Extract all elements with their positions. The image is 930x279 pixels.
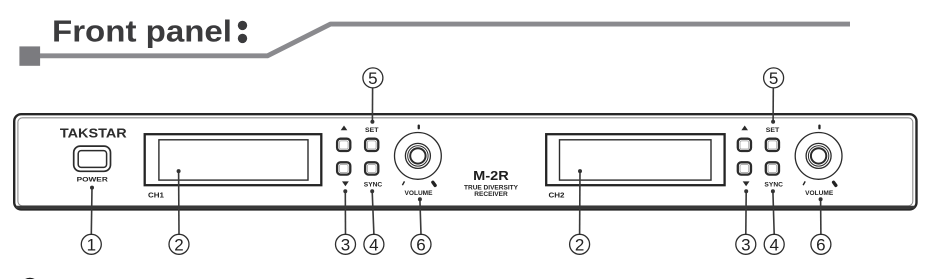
callout circle 4 [364,234,384,254]
volume top tick CH1 [418,125,420,130]
button down CH2 [738,162,751,174]
header decorative line [40,24,850,56]
CH2 label [549,193,565,200]
svg-text:Front panel: Front panel [52,15,232,49]
volume knob CH2 [795,133,842,180]
svg-text:SYNC: SYNC [764,181,783,188]
callout circle 6 right [811,234,831,254]
svg-text:VOLUME: VOLUME [805,190,834,197]
RECEIVER label [474,191,508,198]
receiver chassis outline [14,114,916,209]
svg-text:1: 1 [87,235,96,254]
svg-text:CH1: CH1 [148,193,164,200]
svg-text:2: 2 [575,235,584,254]
header square bullet [19,46,40,65]
SYNC label CH1 [364,181,383,188]
SYNC label CH2 [764,181,783,188]
volume max tick CH1 [433,182,435,185]
VOLUME label CH2 [805,190,834,197]
VOLUME label CH1 [405,190,434,197]
callout dot 6 [418,197,422,201]
volume top tick CH2 [818,125,820,130]
display CH2 outer frame [546,134,724,185]
svg-text:5: 5 [368,69,377,88]
callout circle 2 right [570,234,590,254]
callout circle 4 right [764,234,784,254]
svg-text:RECEIVER: RECEIVER [474,191,508,198]
power button outer ring [74,146,111,171]
title: Front panel [52,15,232,49]
button sync CH1 [365,162,378,174]
volume min tick CH1 [402,181,404,185]
callout dot 5 right [771,120,775,124]
up arrow label CH2 [741,126,748,131]
callout dot 6 right [819,197,823,201]
volume knob CH1 [395,133,442,180]
chassis bottom shadow [16,206,915,209]
svg-text:SET: SET [766,127,780,134]
button set CH1 [365,139,378,151]
SET label CH2 [766,127,780,134]
svg-text:CH2: CH2 [549,193,565,200]
svg-text:SYNC: SYNC [364,181,383,188]
callout dot 3 right [744,189,748,193]
svg-text:VOLUME: VOLUME [405,190,434,197]
callout circle 3 right [736,234,756,254]
button down CH1 [337,162,350,174]
callout dot 5 [370,120,374,124]
callout circle 3 [336,234,356,254]
down arrow label CH2 [743,181,750,186]
callout circle 5 [363,68,383,88]
volume max tick CH2 [834,182,836,185]
svg-text:POWER: POWER [77,177,108,184]
svg-text:3: 3 [341,235,350,254]
callout line 5 [371,88,373,122]
callout line 5 right [772,88,774,122]
svg-text:5: 5 [769,69,778,88]
callout line 1 [90,188,93,235]
down arrow label CH1 [342,181,349,186]
volume min tick CH2 [803,181,805,185]
svg-text:6: 6 [816,235,825,254]
callout circle 1 [81,234,101,254]
callout line 4 [372,191,374,234]
callout dot 3 [343,189,347,193]
callout dot 1 [90,186,94,190]
callout line 4 right [773,191,774,234]
svg-text:SET: SET [365,127,379,134]
callout line 2 [178,171,180,234]
svg-text:3: 3 [741,235,750,254]
callout circle 6 [411,234,431,254]
chassis inner bevel line [18,118,913,206]
display CH1 outer frame [145,134,322,185]
TRUE DIVERSITY label [464,185,519,192]
callout dot 2 [177,169,181,173]
callout dot 4 [370,189,374,193]
svg-text:4: 4 [769,235,778,254]
callout dot 4 right [771,189,775,193]
callout circle 5 right [764,68,784,88]
display CH2 screen [560,140,712,180]
callout dot 2 right [578,169,582,173]
svg-text:4: 4 [369,235,378,254]
power button inner face [78,151,106,168]
svg-text:M-2R: M-2R [473,168,509,183]
title colon [238,21,247,43]
display CH1 screen [159,140,308,180]
callout line 3 right [745,191,747,234]
up arrow label CH1 [341,126,348,131]
button up CH2 [738,139,751,151]
model name M-2R [473,168,509,183]
SET label CH1 [365,127,379,134]
TAKSTAR logo [60,127,127,141]
button set CH2 [766,139,779,151]
callout line 2 right [579,171,581,234]
button up CH1 [337,139,350,151]
callout line 6 right [820,199,822,234]
button sync CH2 [766,162,779,174]
POWER label [77,177,108,184]
svg-text:6: 6 [416,235,425,254]
callout line 3 [344,191,346,234]
callout line 6 [420,199,421,234]
svg-text:TAKSTAR: TAKSTAR [60,127,127,141]
CH1 label [148,193,164,200]
svg-text:2: 2 [174,235,183,254]
callout circle 2 [169,234,189,254]
